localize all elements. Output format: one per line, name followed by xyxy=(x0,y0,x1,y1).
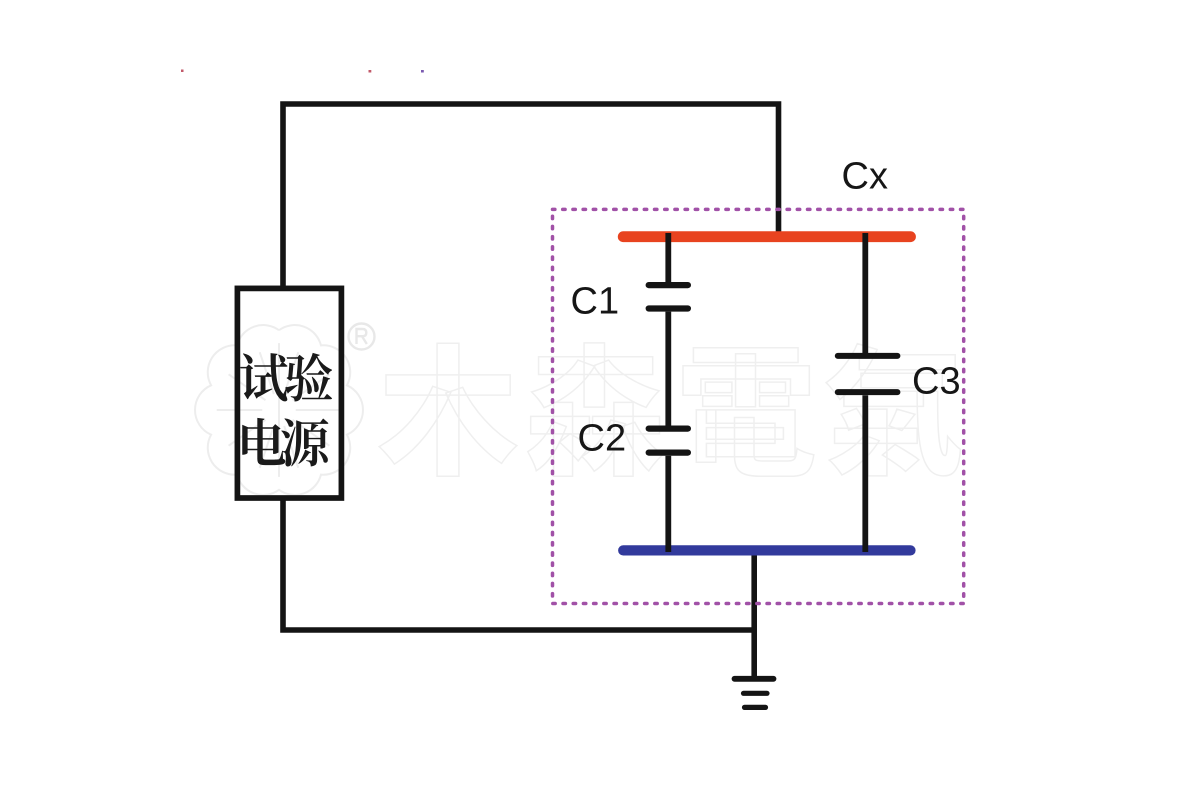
capacitor C2 plates xyxy=(649,429,688,453)
box: test power source xyxy=(237,288,341,498)
box label text 试验电源 xyxy=(240,353,332,467)
wire: source bottom to ground rail xyxy=(283,500,754,630)
svg-text:C3: C3 xyxy=(912,361,961,403)
wire: blue bar down through rail to ground xyxy=(751,548,757,677)
capacitor C1 plates xyxy=(649,285,688,308)
wire C1-C2 xyxy=(665,312,671,426)
watermark text 木森電氣 xyxy=(379,343,960,476)
blue bar: LV electrode xyxy=(623,545,910,555)
capacitor C3 plates xyxy=(838,356,898,392)
wire C3 to blue bar xyxy=(862,395,868,552)
capacitor C1 wire from red bar xyxy=(665,233,671,282)
wire C2 to blue bar xyxy=(665,456,671,552)
svg-text:C1: C1 xyxy=(571,281,620,323)
svg-text:Cx: Cx xyxy=(842,156,888,198)
speck dots xyxy=(181,70,424,73)
dashed box Cx boundary xyxy=(553,209,964,603)
red bar: HV electrode xyxy=(623,231,910,242)
registered trademark watermark xyxy=(349,324,375,350)
capacitor C3 wire from red bar xyxy=(862,233,868,353)
wire: source loop top xyxy=(283,104,779,286)
svg-text:C2: C2 xyxy=(578,418,627,460)
ground xyxy=(735,679,774,708)
watermark logo xyxy=(195,325,363,495)
